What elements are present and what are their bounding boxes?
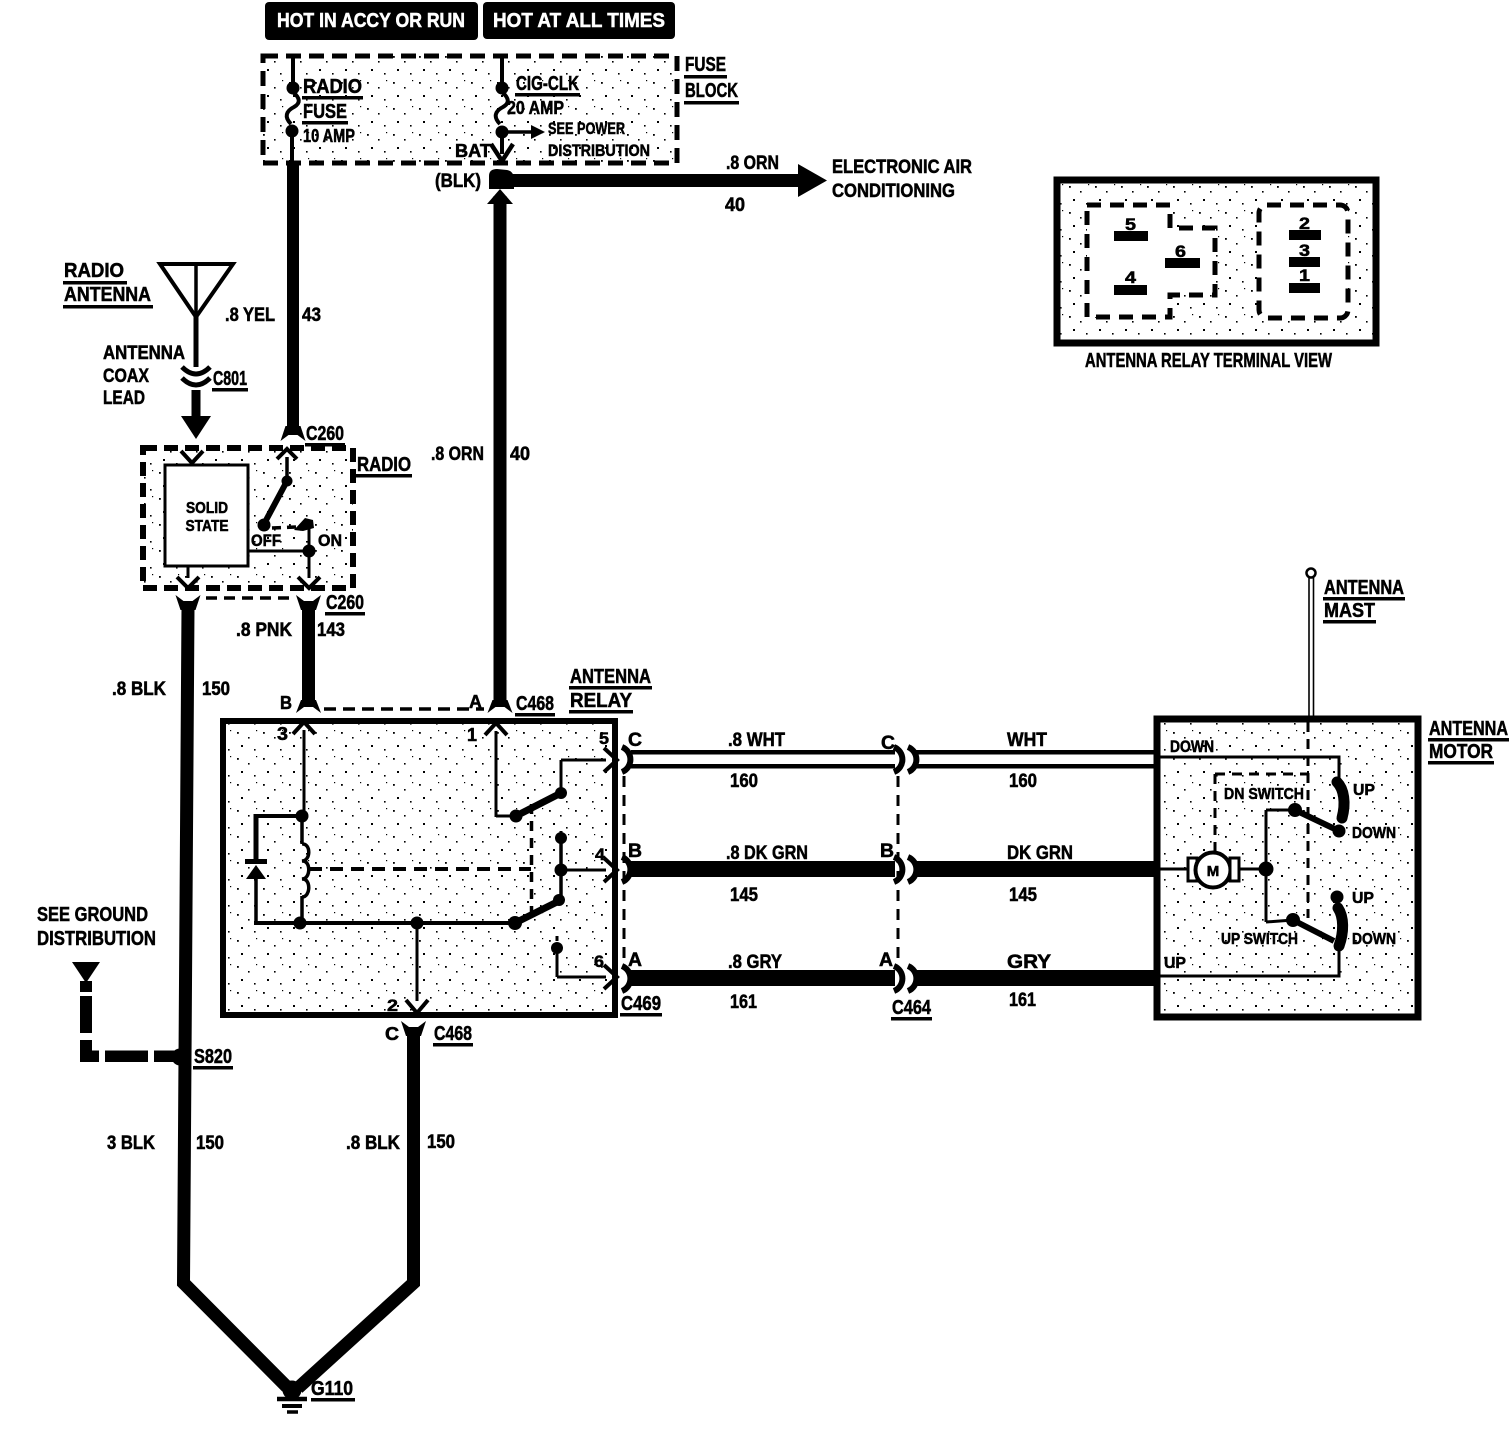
terminal 4 (1114, 268, 1147, 295)
wire DK GRN 145 (915, 843, 1158, 906)
svg-text:UP: UP (1353, 782, 1375, 799)
svg-text:160: 160 (1009, 771, 1037, 792)
connector C464 (879, 733, 932, 1021)
dn switch up contact (1337, 782, 1375, 818)
node DOWN feed in motor (1157, 737, 1339, 779)
svg-text:BLOCK: BLOCK (685, 80, 738, 102)
svg-text:OFF: OFF (251, 531, 281, 550)
antenna relay terminal view box (1057, 180, 1376, 372)
svg-text:1: 1 (467, 725, 477, 745)
svg-text:A: A (469, 692, 482, 712)
relay center contact (pin4) (555, 831, 618, 900)
svg-text:DISTRIBUTION: DISTRIBUTION (37, 928, 156, 950)
node (BLK) junction (435, 169, 514, 192)
svg-text:6: 6 (594, 952, 604, 971)
wire .8 BLK 150 from radio (112, 608, 287, 1387)
wire .8 ORN 40 vertical (431, 189, 530, 713)
svg-text:SEE GROUND: SEE GROUND (37, 904, 148, 926)
dn switch down contact (1333, 825, 1397, 843)
svg-text:4: 4 (595, 845, 606, 864)
terminal 3 (1289, 241, 1320, 267)
svg-text:.8 ORN: .8 ORN (726, 153, 779, 174)
antenna mast (1307, 569, 1406, 719)
svg-text:43: 43 (302, 305, 321, 326)
svg-text:UP: UP (1352, 890, 1374, 907)
connector C260 bottom of radio (176, 592, 366, 616)
svg-text:161: 161 (1009, 990, 1036, 1011)
dn switch arm (1224, 786, 1337, 830)
svg-text:C: C (881, 733, 895, 754)
svg-text:LEAD: LEAD (103, 388, 145, 409)
wire .8 YEL 43 vertical (225, 163, 321, 441)
svg-text:MOTOR: MOTOR (1429, 741, 1493, 763)
svg-text:FUSE: FUSE (303, 101, 347, 123)
wire GRY 161 (915, 952, 1158, 1011)
svg-text:DK GRN: DK GRN (1007, 843, 1073, 864)
hot at all times label box (483, 2, 675, 39)
svg-text:.8 BLK: .8 BLK (346, 1133, 400, 1154)
svg-text:DISTRIBUTION: DISTRIBUTION (548, 141, 650, 160)
svg-text:UP: UP (1164, 955, 1186, 972)
svg-text:RELAY: RELAY (570, 690, 633, 712)
svg-text:RADIO: RADIO (303, 76, 362, 98)
terminal 6 (1165, 242, 1200, 268)
svg-text:COAX: COAX (103, 366, 149, 387)
svg-text:ANTENNA: ANTENNA (103, 343, 185, 364)
pin 2 to ground (387, 923, 428, 1015)
terminal 1 (1289, 266, 1320, 293)
relay common wire bottom (254, 917, 515, 930)
cig-clk fuse 20 amp (455, 58, 650, 161)
svg-text:150: 150 (196, 1133, 224, 1154)
svg-text:GRY: GRY (1007, 952, 1051, 973)
wire .8 BLK 150 from relay (298, 1034, 455, 1388)
svg-text:FUSE: FUSE (685, 54, 726, 76)
svg-text:CONDITIONING: CONDITIONING (832, 181, 955, 202)
svg-text:145: 145 (730, 885, 758, 906)
svg-text:C260: C260 (306, 423, 344, 445)
svg-text:RADIO: RADIO (357, 454, 411, 476)
svg-text:DOWN: DOWN (1352, 825, 1396, 842)
see ground distribution (37, 904, 156, 992)
svg-text:C469: C469 (621, 993, 661, 1015)
svg-text:.8 WHT: .8 WHT (728, 730, 785, 751)
svg-text:DOWN: DOWN (1352, 931, 1396, 948)
wire WHT 160 (915, 730, 1158, 792)
svg-text:SEE POWER: SEE POWER (548, 119, 625, 138)
svg-text:ELECTRONIC AIR: ELECTRONIC AIR (832, 157, 972, 178)
pin 1 (467, 723, 507, 817)
wire 3 BLK 150 (107, 1133, 224, 1154)
mast mechanical link dashed (1215, 722, 1308, 918)
terminal connector outline right (1259, 205, 1348, 318)
relay upper switch (pin1 to pin5) (496, 729, 617, 823)
svg-text:5: 5 (599, 729, 609, 748)
svg-text:(BLK): (BLK) (435, 171, 481, 192)
svg-text:4: 4 (1125, 268, 1137, 287)
svg-text:DOWN: DOWN (1170, 737, 1214, 756)
svg-text:20 AMP: 20 AMP (507, 98, 564, 118)
svg-text:ANTENNA: ANTENNA (570, 666, 651, 688)
svg-text:M: M (1207, 863, 1220, 880)
svg-text:150: 150 (427, 1132, 455, 1153)
fuse block (263, 54, 739, 163)
wire .8 ORN 40 to electronic air conditioning (497, 153, 972, 216)
wire dashed to S820 (80, 996, 176, 1062)
svg-text:SOLID: SOLID (186, 500, 228, 517)
svg-text:MAST: MAST (1324, 600, 1375, 622)
svg-text:160: 160 (730, 771, 758, 792)
svg-text:C468: C468 (516, 693, 554, 715)
up switch down contact (1338, 908, 1396, 948)
svg-text:UP SWITCH: UP SWITCH (1221, 931, 1298, 948)
svg-text:ANTENNA: ANTENNA (1429, 718, 1508, 740)
solid state unit in radio (165, 451, 248, 566)
svg-text:C: C (385, 1024, 399, 1044)
wire .8 DK GRN 145 (631, 843, 895, 906)
radio antenna symbol (63, 260, 233, 367)
svg-text:B: B (628, 841, 642, 862)
splice S820 (172, 1046, 234, 1070)
svg-text:BAT: BAT (455, 141, 491, 161)
radio on/off switch (177, 449, 342, 588)
radio fuse 10 amp (286, 58, 364, 163)
svg-text:B: B (880, 841, 894, 862)
svg-text:ANTENNA: ANTENNA (64, 284, 151, 306)
antenna relay title (569, 666, 652, 714)
svg-text:HOT IN ACCY OR RUN: HOT IN ACCY OR RUN (277, 10, 465, 32)
wire .8 GRY 161 (631, 952, 895, 1013)
ground G110 (277, 1378, 355, 1412)
svg-text:10 AMP: 10 AMP (303, 126, 355, 146)
svg-text:WHT: WHT (1007, 730, 1047, 751)
svg-text:A: A (879, 950, 893, 971)
terminal 2 (1289, 214, 1321, 240)
svg-text:40: 40 (510, 444, 530, 465)
svg-text:161: 161 (730, 992, 757, 1013)
svg-text:C: C (628, 730, 642, 751)
svg-text:3: 3 (277, 724, 288, 744)
pin 3 (277, 722, 315, 816)
svg-text:DN SWITCH: DN SWITCH (1224, 786, 1304, 803)
svg-text:RADIO: RADIO (64, 260, 124, 282)
svg-text:.8 BLK: .8 BLK (112, 679, 166, 700)
terminal 5 (1114, 215, 1148, 241)
connector C468 below relay (385, 1021, 473, 1047)
hot in accy or run label box (265, 2, 478, 40)
svg-text:B: B (280, 693, 292, 713)
svg-text:ANTENNA: ANTENNA (1324, 577, 1404, 599)
svg-text:.8 DK GRN: .8 DK GRN (726, 843, 808, 864)
motor M (1157, 810, 1274, 922)
svg-text:2: 2 (387, 996, 398, 1015)
up switch arm (1221, 913, 1334, 948)
node UP feed in motor (1157, 946, 1339, 976)
svg-text:143: 143 (317, 620, 345, 641)
svg-text:3 BLK: 3 BLK (107, 1133, 155, 1154)
svg-text:A: A (628, 950, 642, 971)
connector C468 above relay (280, 692, 555, 717)
svg-text:40: 40 (725, 195, 745, 216)
wire .8 PNK 143 from radio (236, 608, 345, 713)
svg-text:G110: G110 (311, 1378, 353, 1400)
svg-text:1: 1 (1299, 266, 1310, 285)
svg-text:C464: C464 (892, 997, 932, 1019)
connector C260 label top (305, 423, 345, 447)
svg-text:.8 PNK: .8 PNK (236, 620, 292, 641)
antenna motor box (1157, 718, 1509, 1017)
svg-text:HOT AT ALL TIMES: HOT AT ALL TIMES (493, 10, 665, 32)
wire .8 WHT 160 (631, 730, 895, 792)
svg-text:CIG-CLK: CIG-CLK (516, 73, 579, 95)
antenna relay box (223, 721, 615, 1015)
svg-text:STATE: STATE (186, 518, 229, 535)
up switch up contact (1331, 890, 1375, 907)
connector C469 (620, 730, 662, 1017)
connector C801 antenna coax lead (103, 343, 248, 439)
svg-text:C468: C468 (434, 1023, 472, 1045)
svg-text:.8 ORN: .8 ORN (431, 444, 484, 465)
mechanical link dashed (309, 804, 532, 912)
svg-text:.8 YEL: .8 YEL (225, 305, 275, 326)
svg-text:145: 145 (1009, 885, 1037, 906)
terminal connector outline left (1087, 205, 1215, 317)
diode in relay (245, 859, 267, 923)
svg-text:ANTENNA RELAY TERMINAL VIEW: ANTENNA RELAY TERMINAL VIEW (1085, 350, 1332, 372)
svg-text:.8 GRY: .8 GRY (728, 952, 782, 973)
relay coil branch (256, 810, 309, 862)
coil winding (302, 820, 309, 920)
svg-text:S820: S820 (194, 1046, 232, 1068)
radio (dashed box) (143, 448, 412, 588)
svg-text:150: 150 (202, 679, 230, 700)
svg-text:ON: ON (318, 531, 342, 550)
svg-text:C260: C260 (326, 592, 364, 614)
svg-text:C801: C801 (213, 368, 247, 390)
relay lower switch (common to pin4/pin6) (508, 894, 617, 989)
